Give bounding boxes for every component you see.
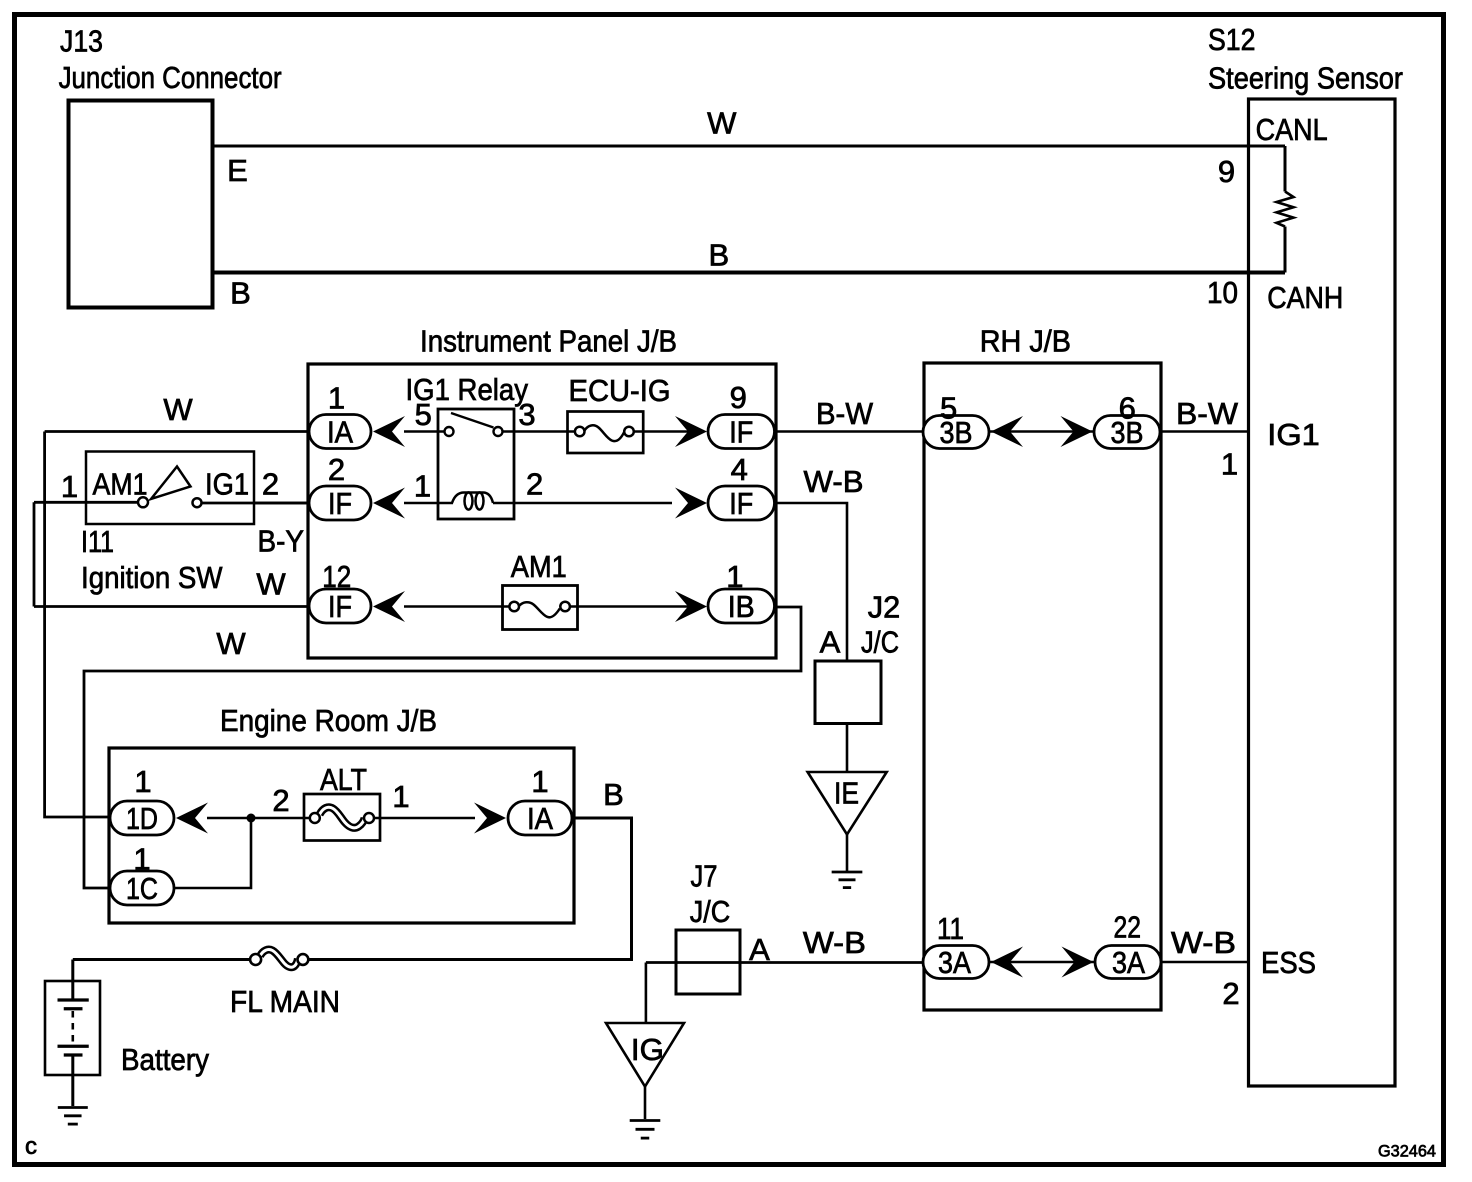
svg-text:Steering Sensor: Steering Sensor — [1208, 61, 1403, 96]
svg-text:W-B: W-B — [803, 925, 866, 960]
svg-text:9: 9 — [730, 380, 747, 415]
svg-text:B-W: B-W — [816, 396, 874, 431]
svg-text:IG: IG — [631, 1032, 664, 1067]
svg-text:4: 4 — [731, 452, 748, 487]
svg-text:J13: J13 — [60, 24, 103, 59]
svg-text:Junction Connector: Junction Connector — [59, 60, 282, 95]
svg-text:IB: IB — [728, 589, 755, 624]
svg-text:CANL: CANL — [1256, 112, 1328, 147]
svg-text:W: W — [163, 392, 193, 427]
svg-text:B: B — [708, 238, 729, 273]
svg-text:I11: I11 — [81, 524, 114, 559]
svg-text:B: B — [603, 777, 624, 812]
svg-text:c: c — [25, 1133, 37, 1160]
svg-text:5: 5 — [940, 391, 957, 426]
svg-text:Battery: Battery — [121, 1042, 209, 1077]
svg-text:1: 1 — [61, 469, 78, 504]
svg-text:1: 1 — [1221, 447, 1238, 482]
svg-text:1: 1 — [328, 381, 345, 416]
svg-text:2: 2 — [272, 783, 289, 818]
svg-text:FL MAIN: FL MAIN — [230, 984, 340, 1019]
svg-text:3A: 3A — [938, 945, 971, 980]
svg-text:J/C: J/C — [690, 894, 731, 929]
svg-text:S12: S12 — [1208, 22, 1256, 57]
svg-text:1: 1 — [726, 559, 743, 594]
svg-text:B: B — [230, 276, 251, 311]
svg-text:1: 1 — [134, 764, 151, 799]
svg-text:W-B: W-B — [804, 464, 864, 499]
svg-text:IF: IF — [729, 486, 753, 521]
svg-text:IA: IA — [527, 801, 553, 836]
svg-text:B-W: B-W — [1176, 396, 1239, 431]
svg-text:IF: IF — [328, 589, 352, 624]
svg-text:W: W — [707, 106, 737, 141]
svg-text:W: W — [216, 626, 246, 661]
svg-text:CANH: CANH — [1267, 280, 1343, 315]
svg-text:1D: 1D — [126, 801, 158, 836]
svg-text:A: A — [749, 932, 770, 967]
svg-text:22: 22 — [1114, 910, 1142, 945]
svg-text:B-Y: B-Y — [258, 524, 305, 559]
svg-text:AM1: AM1 — [93, 467, 148, 502]
svg-text:IE: IE — [834, 776, 859, 811]
svg-text:W-B: W-B — [1171, 925, 1236, 960]
svg-text:J/C: J/C — [861, 625, 899, 660]
svg-text:RH J/B: RH J/B — [980, 324, 1071, 359]
svg-text:3A: 3A — [1112, 945, 1145, 980]
svg-text:AM1: AM1 — [511, 549, 567, 584]
svg-text:5: 5 — [415, 397, 432, 432]
svg-text:10: 10 — [1207, 275, 1238, 310]
svg-text:6: 6 — [1119, 391, 1136, 426]
svg-text:2: 2 — [262, 467, 279, 502]
svg-text:IG1: IG1 — [1267, 417, 1320, 452]
svg-text:ESS: ESS — [1261, 945, 1316, 980]
svg-text:1: 1 — [392, 779, 409, 814]
svg-text:2: 2 — [526, 467, 543, 502]
svg-text:IF: IF — [729, 415, 753, 450]
svg-text:Ignition SW: Ignition SW — [81, 560, 223, 595]
svg-text:E: E — [227, 153, 248, 188]
svg-text:Engine Room J/B: Engine Room J/B — [220, 703, 437, 738]
svg-text:2: 2 — [1222, 976, 1239, 1011]
svg-text:1: 1 — [531, 764, 548, 799]
svg-text:12: 12 — [322, 559, 351, 594]
svg-text:IA: IA — [327, 415, 353, 450]
svg-text:W: W — [256, 567, 286, 602]
svg-text:11: 11 — [937, 911, 964, 946]
svg-text:A: A — [820, 625, 841, 660]
svg-text:J7: J7 — [691, 859, 718, 894]
svg-text:9: 9 — [1218, 154, 1235, 189]
svg-text:1: 1 — [414, 469, 431, 504]
svg-text:ALT: ALT — [320, 762, 367, 797]
svg-text:1: 1 — [133, 842, 150, 877]
svg-text:IG1: IG1 — [205, 467, 249, 502]
svg-text:Instrument Panel J/B: Instrument Panel J/B — [420, 324, 677, 359]
svg-text:ECU-IG: ECU-IG — [569, 373, 671, 408]
svg-text:J2: J2 — [868, 590, 901, 625]
svg-text:3: 3 — [518, 397, 535, 432]
svg-text:IF: IF — [328, 486, 352, 521]
svg-text:G32464: G32464 — [1378, 1142, 1436, 1161]
svg-text:2: 2 — [328, 452, 345, 487]
